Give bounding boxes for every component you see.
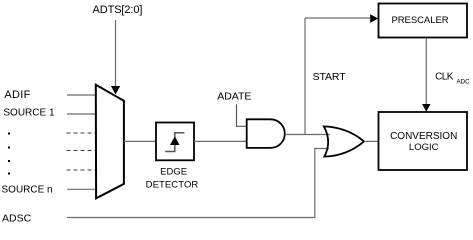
wire dashed source c: [67, 169, 96, 171]
svg-text:ADIF: ADIF: [4, 89, 30, 101]
AND gate G1: [247, 119, 285, 148]
wire ADIF: [67, 94, 95, 96]
arrowhead into mux: [111, 86, 120, 95]
wire ADTS select line: [115, 20, 117, 87]
wire ADSC horizontal: [67, 149, 329, 218]
multiplexer MUX: [96, 85, 124, 199]
wire mux output to edge detector: [124, 140, 156, 142]
wire dashed source b: [67, 150, 96, 152]
edge detector box U1: [156, 123, 194, 161]
wire START vertical: [304, 18, 306, 135]
edge symbol inside detector: [165, 133, 184, 152]
wire ADATE to AND gate: [237, 104, 247, 126]
svg-text:PRESCALER: PRESCALER: [391, 15, 448, 26]
svg-text:SOURCE 1: SOURCE 1: [3, 107, 55, 118]
vertical ellipsis dots: [8, 133, 10, 135]
svg-text:ADTS[2:0]: ADTS[2:0]: [93, 4, 143, 16]
svg-text:SOURCE n: SOURCE n: [2, 185, 53, 196]
box CONVERSION LOGIC: [379, 112, 468, 170]
svg-text:ADC: ADC: [457, 79, 471, 86]
svg-text:CLK: CLK: [435, 72, 454, 83]
svg-text:CONVERSION: CONVERSION: [390, 131, 457, 142]
OR gate G2: [324, 126, 364, 156]
box PRESCALER: [379, 4, 468, 38]
edge symbol arrowhead: [170, 137, 180, 146]
svg-text:ADSC: ADSC: [2, 213, 32, 225]
svg-text:EDGE: EDGE: [160, 167, 187, 178]
svg-text:ADATE: ADATE: [217, 91, 251, 103]
svg-text:START: START: [313, 71, 347, 83]
svg-text:LOGIC: LOGIC: [409, 142, 439, 153]
wire AND output to OR gate: [285, 134, 330, 136]
wire edge detector to AND gate: [194, 140, 247, 142]
wire SOURCE 1: [67, 113, 95, 115]
wire OR output to conversion logic: [364, 140, 379, 142]
svg-text:DETECTOR: DETECTOR: [146, 179, 199, 190]
arrowhead into conversion logic: [422, 104, 430, 112]
wire dashed source a: [67, 132, 96, 134]
wire SOURCE n: [67, 188, 95, 190]
wire CLK adc vertical: [425, 38, 427, 105]
wire START horizontal to prescaler: [305, 17, 371, 19]
arrowhead into prescaler: [370, 14, 378, 22]
